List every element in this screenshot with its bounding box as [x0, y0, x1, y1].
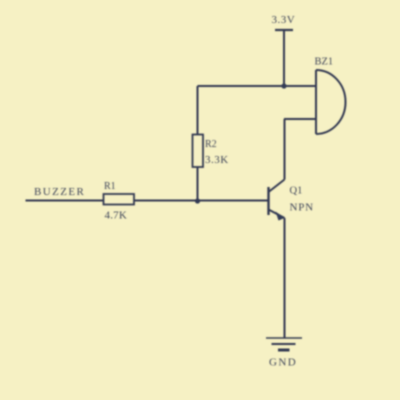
wire left input	[26, 200, 104, 202]
ground bar 2	[272, 343, 296, 345]
ground bar 3	[278, 349, 290, 352]
transistor Q1 emitter diagonal	[269, 210, 285, 219]
resistor R2	[193, 135, 204, 168]
power bar	[275, 29, 293, 31]
node junction top	[281, 83, 286, 88]
svg-text:GND: GND	[269, 357, 297, 369]
wire R2 bottom lead	[197, 167, 199, 201]
wire emitter	[284, 218, 286, 338]
transistor Q1 base bar	[267, 187, 269, 215]
svg-text:BUZZER: BUZZER	[34, 186, 85, 198]
svg-text:4.7K: 4.7K	[105, 210, 128, 222]
node junction base	[195, 198, 200, 203]
svg-text:3.3K: 3.3K	[205, 154, 229, 166]
transistor Q1 collector diagonal	[269, 180, 285, 193]
wire base	[134, 200, 269, 202]
svg-text:R1: R1	[104, 181, 116, 192]
svg-text:BZ1: BZ1	[315, 57, 334, 68]
svg-text:NPN: NPN	[290, 202, 314, 214]
svg-text:R2: R2	[205, 139, 217, 150]
svg-text:3.3V: 3.3V	[272, 14, 296, 26]
wire power to junction	[283, 30, 285, 86]
wire collector	[284, 119, 286, 180]
transistor Q1 emitter arrow	[276, 212, 285, 221]
resistor R1	[104, 194, 135, 205]
svg-text:Q1: Q1	[290, 186, 303, 197]
wire top horizontal	[198, 85, 317, 87]
ground bar 1	[266, 337, 302, 339]
buzzer BZ1 body	[316, 70, 346, 134]
wire R2 top lead	[197, 86, 199, 135]
wire buzzer bottom stub	[284, 118, 316, 120]
